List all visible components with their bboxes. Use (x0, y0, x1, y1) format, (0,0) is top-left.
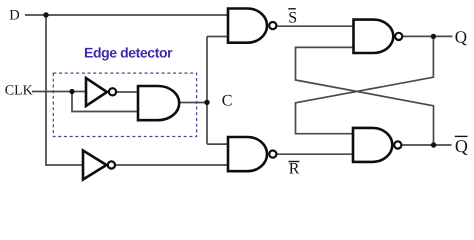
svg-text:Q: Q (455, 28, 467, 47)
svg-text:S: S (288, 9, 297, 26)
svg-text:Q: Q (455, 136, 468, 156)
svg-text:R: R (289, 161, 300, 178)
svg-text:C: C (222, 93, 233, 110)
svg-text:Edge detector: Edge detector (84, 45, 173, 61)
svg-text:CLK: CLK (5, 83, 33, 98)
svg-text:D: D (9, 8, 19, 24)
